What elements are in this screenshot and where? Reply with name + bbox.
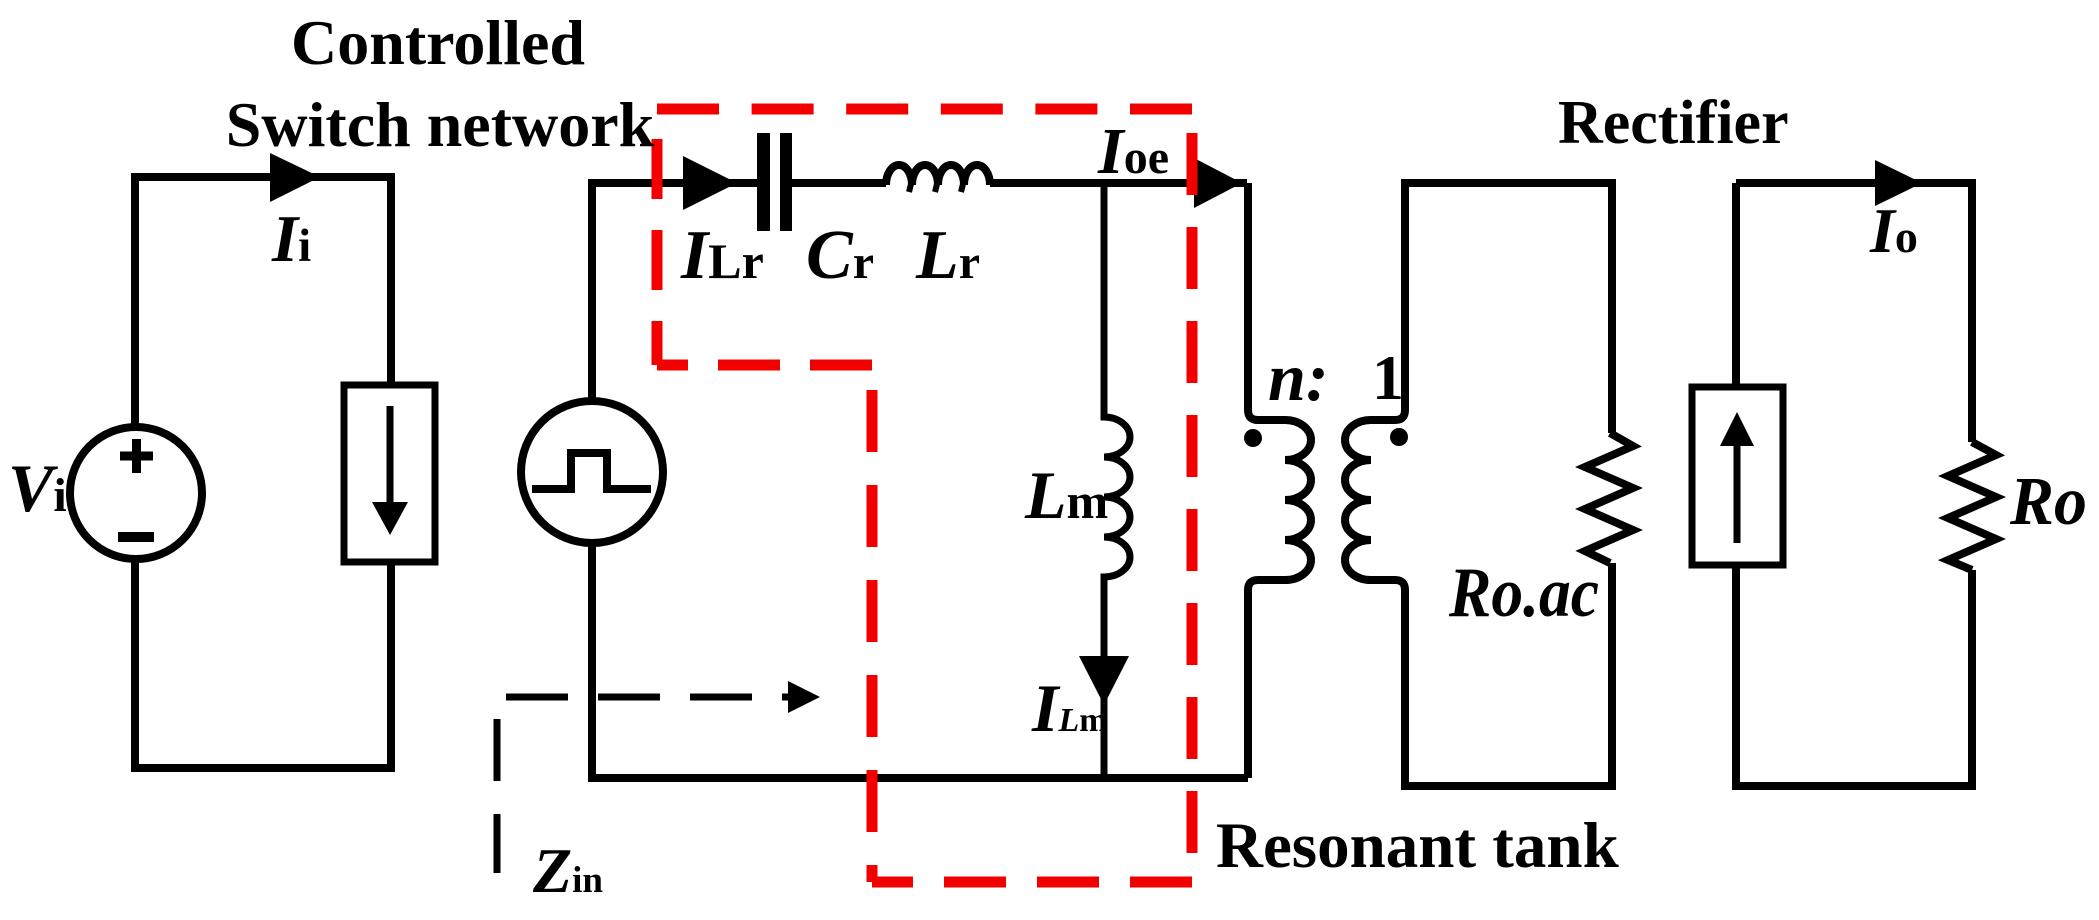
- svg-text:Switch network: Switch network: [226, 89, 655, 160]
- svg-text:Ro: Ro: [2009, 463, 2087, 539]
- svg-text:1: 1: [1372, 342, 1404, 413]
- svg-text:n:: n:: [1268, 339, 1328, 415]
- svg-text:Resonant tank: Resonant tank: [1216, 810, 1620, 882]
- svg-text:Rectifier: Rectifier: [1558, 89, 1789, 157]
- svg-text:Ro.ac: Ro.ac: [1448, 554, 1599, 632]
- svg-text:Controlled: Controlled: [291, 7, 585, 78]
